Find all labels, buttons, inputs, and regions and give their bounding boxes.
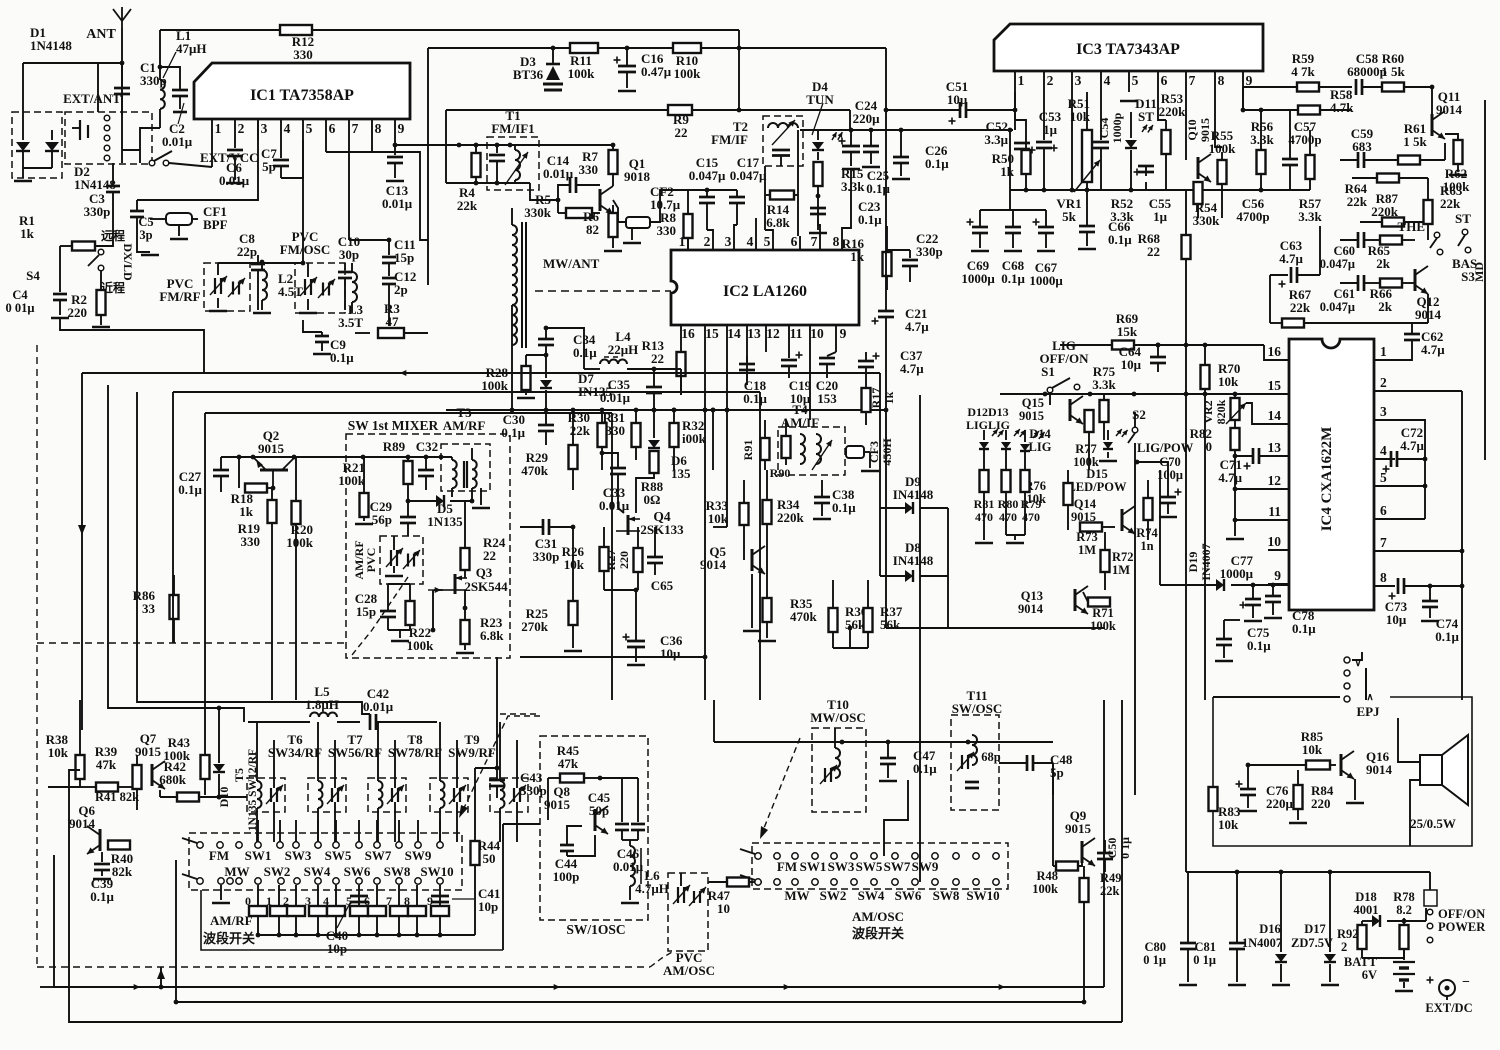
dashed linkage PVC AM/OSC <box>650 952 672 967</box>
svg-text:1: 1 <box>1018 73 1025 88</box>
wire top bus 2 <box>428 47 886 49</box>
capacitor C40 10p <box>350 895 368 898</box>
svg-text:0.1μ: 0.1μ <box>925 156 949 171</box>
svg-text:1k: 1k <box>20 226 35 241</box>
svg-text:100k: 100k <box>338 473 366 488</box>
svg-text:ST: ST <box>1138 109 1154 124</box>
svg-text:0.047μ: 0.047μ <box>1320 300 1355 314</box>
svg-text:R80: R80 <box>998 497 1019 511</box>
svg-text:100k: 100k <box>286 535 314 550</box>
svg-text:56p: 56p <box>372 512 392 527</box>
svg-text:4700p: 4700p <box>1288 132 1321 147</box>
svg-text:10: 10 <box>717 901 730 916</box>
svg-text:R72: R72 <box>1112 550 1134 564</box>
svg-text:SW3: SW3 <box>285 848 312 863</box>
svg-text:C81: C81 <box>1194 940 1216 954</box>
capacitor C13 0.01u <box>394 140 396 155</box>
svg-text:3: 3 <box>261 121 268 136</box>
svg-text:SW6: SW6 <box>895 888 922 903</box>
svg-text:SW8: SW8 <box>384 864 411 879</box>
wire pin9 to T1 <box>395 144 446 146</box>
svg-text:0.1μ: 0.1μ <box>1292 621 1316 636</box>
svg-text:1000p: 1000p <box>1110 112 1124 143</box>
svg-text:100k: 100k <box>568 66 596 81</box>
svg-text:22: 22 <box>1147 244 1160 259</box>
switch row FM SW1-SW9 <box>197 842 203 848</box>
svg-text:4.7μ: 4.7μ <box>1279 251 1303 266</box>
svg-text:3p: 3p <box>139 228 152 242</box>
svg-text:82: 82 <box>586 222 599 237</box>
svg-text:47k: 47k <box>558 756 579 771</box>
svg-text:0 01μ: 0 01μ <box>6 301 35 315</box>
svg-text:SW1: SW1 <box>800 859 827 874</box>
svg-text:C32: C32 <box>416 439 438 454</box>
svg-text:4.7μ: 4.7μ <box>900 361 924 376</box>
svg-text:13: 13 <box>1268 440 1282 455</box>
wire <box>372 152 428 240</box>
svg-text:EXT/ANT: EXT/ANT <box>63 91 121 106</box>
svg-text:BT36: BT36 <box>513 67 544 82</box>
svg-text:1.8μH: 1.8μH <box>305 697 339 712</box>
svg-text:8.2: 8.2 <box>1396 903 1412 917</box>
svg-text:220k: 220k <box>777 510 805 525</box>
svg-text:9015: 9015 <box>1019 409 1044 423</box>
svg-text:330p: 330p <box>84 204 111 219</box>
svg-text:9: 9 <box>840 326 847 341</box>
svg-text:0.1μ: 0.1μ <box>330 350 354 365</box>
svg-text:MW: MW <box>224 864 249 879</box>
svg-text:SW78/RF: SW78/RF <box>388 745 442 760</box>
wire CF2 out <box>650 190 688 222</box>
svg-text:SW10: SW10 <box>420 864 453 879</box>
svg-text:C65: C65 <box>651 578 674 593</box>
svg-text:2p: 2p <box>394 282 408 297</box>
svg-text:10k: 10k <box>708 511 729 526</box>
svg-text:100k: 100k <box>1032 882 1058 896</box>
svg-text:56k: 56k <box>880 617 901 632</box>
svg-text:OFF/ON: OFF/ON <box>1438 907 1485 921</box>
wire <box>503 823 540 825</box>
svg-text:3.5T: 3.5T <box>338 315 363 330</box>
svg-text:Q10: Q10 <box>1185 119 1199 140</box>
audio out box <box>1213 697 1472 846</box>
svg-text:R71: R71 <box>1092 606 1114 620</box>
svg-text:R48: R48 <box>1036 869 1058 883</box>
wire pin8 IC3 <box>1215 92 1222 147</box>
wire q5 ground <box>766 595 768 598</box>
svg-text:2SK544: 2SK544 <box>464 579 508 594</box>
capacitor C2 0.01u <box>160 67 180 89</box>
wire T4 pin11 <box>809 352 811 420</box>
antenna ANT <box>121 28 123 115</box>
svg-text:16: 16 <box>1268 344 1282 359</box>
wire pin5 pin6 <box>1395 485 1425 487</box>
svg-text:1n: 1n <box>1140 539 1153 553</box>
svg-text:2k: 2k <box>1378 299 1393 314</box>
IC4 CXA1622M <box>1289 339 1374 610</box>
svg-text:14: 14 <box>727 326 741 341</box>
svg-text:9018: 9018 <box>624 169 651 184</box>
svg-text:22: 22 <box>483 548 496 563</box>
svg-text:330p: 330p <box>533 549 560 564</box>
svg-text:0.047μ: 0.047μ <box>730 168 767 183</box>
svg-text:MW/OSC: MW/OSC <box>810 710 866 725</box>
wire Q1 collector <box>611 143 616 148</box>
svg-text:8: 8 <box>833 234 840 249</box>
right edge vertical <box>1484 100 1486 460</box>
svg-text:22: 22 <box>651 351 664 366</box>
svg-text:10k: 10k <box>48 745 69 760</box>
svg-text:SW56/RF: SW56/RF <box>328 745 382 760</box>
IC3 TA7343AP <box>994 24 1263 71</box>
svg-text:MD: MD <box>1472 262 1486 282</box>
svg-text:330p: 330p <box>916 244 943 259</box>
svg-text:220: 220 <box>617 551 631 569</box>
bus bottom <box>258 934 475 936</box>
svg-text:15p: 15p <box>394 250 414 265</box>
svg-text:THE: THE <box>1398 219 1425 234</box>
op-amp IC1 TA7358AP <box>194 63 410 119</box>
svg-text:∧: ∧ <box>1366 692 1373 703</box>
svg-text:3: 3 <box>1075 73 1082 88</box>
wire <box>60 62 122 64</box>
svg-text:9014: 9014 <box>700 557 727 572</box>
svg-text:100k: 100k <box>1090 619 1116 633</box>
svg-text:330k: 330k <box>524 205 552 220</box>
left vertical wires <box>81 373 83 730</box>
svg-text:8: 8 <box>1380 570 1387 585</box>
wire <box>947 627 949 629</box>
wire bus y=145 <box>446 144 530 146</box>
dashed linkage T10 <box>762 738 800 833</box>
svg-text:10μ: 10μ <box>660 646 681 661</box>
svg-text:LIG: LIG <box>1029 440 1052 454</box>
svg-text:1M: 1M <box>1078 543 1096 557</box>
svg-text:波段开关: 波段开关 <box>203 931 255 946</box>
svg-text:1000μ: 1000μ <box>1220 566 1254 581</box>
svg-text:5: 5 <box>306 121 313 136</box>
svg-text:4.7k: 4.7k <box>1330 100 1354 115</box>
svg-text:330: 330 <box>606 423 626 438</box>
band switch AM/RF block <box>189 833 462 890</box>
svg-text:330p: 330p <box>520 783 547 798</box>
svg-text:15p: 15p <box>356 604 376 619</box>
svg-text:∨: ∨ <box>1354 658 1361 669</box>
svg-text:1N135 SW12/RF: 1N135 SW12/RF <box>247 749 259 831</box>
wire vertical 612 <box>611 413 613 700</box>
svg-text:1: 1 <box>215 121 222 136</box>
svg-text:i00k: i00k <box>682 431 707 446</box>
svg-text:0.01μ: 0.01μ <box>599 498 630 513</box>
wire pin7 down <box>348 140 350 240</box>
svg-text:SW10: SW10 <box>966 888 999 903</box>
svg-text:0.1μ: 0.1μ <box>743 391 767 406</box>
svg-text:R92: R92 <box>1337 927 1359 941</box>
svg-text:220: 220 <box>68 305 88 320</box>
svg-text:波段开关: 波段开关 <box>852 926 904 941</box>
svg-text:MW/ANT: MW/ANT <box>543 256 600 271</box>
svg-text:BPF: BPF <box>203 217 228 232</box>
svg-text:9014: 9014 <box>1366 762 1393 777</box>
svg-text:6: 6 <box>1380 503 1387 518</box>
wire pin14 down <box>726 368 728 527</box>
svg-text:4.7μ: 4.7μ <box>1218 470 1242 485</box>
svg-text:SW3: SW3 <box>828 859 855 874</box>
wire T2 pins <box>764 195 766 230</box>
svg-text:330k: 330k <box>1193 213 1221 228</box>
svg-text:0.1μ: 0.1μ <box>832 500 856 515</box>
svg-text:ANT: ANT <box>86 27 116 42</box>
svg-text:AM/OSC: AM/OSC <box>852 909 904 924</box>
svg-text:1k: 1k <box>882 391 896 404</box>
svg-text:SW/1OSC: SW/1OSC <box>566 922 625 937</box>
svg-text:0: 0 <box>1206 439 1213 454</box>
svg-text:2: 2 <box>704 234 711 249</box>
wire vertical 760 <box>759 392 761 700</box>
svg-text:10p: 10p <box>327 941 347 956</box>
bottom bus 2 <box>176 860 1084 1002</box>
svg-text:Q3: Q3 <box>476 565 493 580</box>
svg-text:0.1μ: 0.1μ <box>858 212 882 227</box>
svg-text:0.1μ: 0.1μ <box>501 425 525 440</box>
vertical x=920 <box>919 395 921 882</box>
svg-text:270k: 270k <box>521 619 549 634</box>
svg-text:9: 9 <box>1246 73 1253 88</box>
svg-text:3.3k: 3.3k <box>1092 377 1116 392</box>
svg-text:1N4007: 1N4007 <box>1242 936 1282 950</box>
T1 cap <box>496 145 498 153</box>
trimmer caps 0-9 <box>257 885 259 906</box>
svg-text:10μ: 10μ <box>1386 612 1407 627</box>
svg-text:0.1μ: 0.1μ <box>1435 629 1459 644</box>
wire mixer bottom <box>520 656 705 658</box>
svg-text:0.1μ: 0.1μ <box>1108 232 1132 247</box>
svg-text:AM/RF: AM/RF <box>210 913 253 928</box>
bottom bus 3 <box>69 780 1122 1022</box>
svg-text:2: 2 <box>238 121 245 136</box>
svg-text:12: 12 <box>1268 473 1282 488</box>
svg-text:R90: R90 <box>770 466 791 480</box>
svg-text:14: 14 <box>1268 408 1282 423</box>
svg-text:SW7: SW7 <box>884 859 911 874</box>
dashed bottom <box>37 966 650 968</box>
svg-text:IN4007: IN4007 <box>1199 543 1213 580</box>
svg-text:2SK133: 2SK133 <box>640 522 684 537</box>
svg-text:2: 2 <box>283 894 289 908</box>
svg-text:4.7μ: 4.7μ <box>905 319 929 334</box>
wire LIG rail <box>1000 393 1186 395</box>
wire vertical 713 <box>712 410 714 470</box>
svg-text:680k: 680k <box>159 772 187 787</box>
verticals from mixer <box>295 560 297 700</box>
svg-text:3.3μ: 3.3μ <box>984 132 1008 147</box>
svg-text:D18: D18 <box>1355 890 1377 904</box>
svg-text:AM/OSC: AM/OSC <box>663 963 715 978</box>
svg-text:0Ω: 0Ω <box>644 492 661 507</box>
svg-text:POWER: POWER <box>1438 920 1486 934</box>
svg-text:220k: 220k <box>1159 104 1187 119</box>
svg-text:82k: 82k <box>112 864 133 879</box>
wire pin1 <box>211 140 213 167</box>
svg-text:AM/RF: AM/RF <box>443 418 486 433</box>
svg-text:SW34/RF: SW34/RF <box>268 745 322 760</box>
svg-text:2k: 2k <box>1376 256 1391 271</box>
svg-text:6V: 6V <box>1362 968 1377 982</box>
svg-text:470: 470 <box>999 510 1017 524</box>
svg-text:220μ: 220μ <box>853 111 881 126</box>
svg-text:3.3k: 3.3k <box>1110 209 1134 224</box>
svg-text:6.8k: 6.8k <box>766 215 790 230</box>
dashed linkage mixer to SW/1OSC <box>352 577 408 655</box>
svg-text:22k: 22k <box>1290 300 1311 315</box>
wires sw1 up <box>257 820 259 842</box>
svg-text:15: 15 <box>1268 378 1282 393</box>
svg-text:ST: ST <box>1455 211 1471 226</box>
svg-text:4: 4 <box>323 894 329 908</box>
svg-text:4.7μ: 4.7μ <box>1400 438 1424 453</box>
svg-text:450H: 450H <box>880 438 894 466</box>
svg-text:22k: 22k <box>1440 196 1461 211</box>
svg-text:EPJ: EPJ <box>1356 704 1380 719</box>
svg-text:0.01μ: 0.01μ <box>613 859 644 874</box>
svg-text:4.7μH: 4.7μH <box>635 881 669 896</box>
svg-text:22k: 22k <box>570 423 591 438</box>
svg-text:SW5: SW5 <box>325 848 352 863</box>
svg-text:IC2 LA1260: IC2 LA1260 <box>723 283 807 300</box>
svg-text:15k: 15k <box>1117 324 1138 339</box>
wire vertical x=886 <box>885 48 887 311</box>
svg-text:EXT/DC: EXT/DC <box>1425 1001 1472 1015</box>
arrow up line <box>160 967 162 988</box>
svg-text:8: 8 <box>375 121 382 136</box>
svg-text:100k: 100k <box>674 66 702 81</box>
vertical right of IC2 <box>886 627 1104 629</box>
svg-text:1: 1 <box>266 894 272 908</box>
wire pin7 <box>1395 550 1462 552</box>
svg-text:−: − <box>1462 975 1470 990</box>
svg-text:2: 2 <box>1047 73 1054 88</box>
vertical x=1160 to D19 <box>1159 470 1161 585</box>
band switch AM/OSC block <box>752 843 1008 889</box>
svg-text:SW8: SW8 <box>933 888 960 903</box>
svg-text:4 7k: 4 7k <box>1291 64 1315 79</box>
svg-text:SW4: SW4 <box>858 888 885 903</box>
svg-text:Q15: Q15 <box>1022 396 1044 410</box>
svg-text:1k: 1k <box>239 504 254 519</box>
svg-text:10k: 10k <box>1302 742 1323 757</box>
wire osc bus <box>714 741 1053 743</box>
svg-text:100k: 100k <box>481 378 509 393</box>
svg-text:SW9: SW9 <box>912 859 939 874</box>
svg-text:FM: FM <box>777 859 797 874</box>
svg-text:10: 10 <box>810 326 824 341</box>
svg-text:1N135: 1N135 <box>427 514 463 529</box>
svg-text:10: 10 <box>1268 534 1282 549</box>
svg-text:R41 82k: R41 82k <box>95 790 139 804</box>
svg-text:远程: 远程 <box>101 228 125 243</box>
svg-text:0 1μ: 0 1μ <box>1143 953 1166 967</box>
svg-text:9014: 9014 <box>1018 602 1044 616</box>
svg-text:22p: 22p <box>237 244 257 259</box>
svg-text:10μ: 10μ <box>1121 357 1142 372</box>
svg-text:SW7: SW7 <box>365 848 392 863</box>
svg-text:R89: R89 <box>383 439 406 454</box>
svg-text:BATT: BATT <box>1344 955 1378 969</box>
svg-text:4: 4 <box>1380 443 1387 458</box>
svg-text:R78: R78 <box>1393 890 1415 904</box>
svg-text:5k: 5k <box>1062 209 1077 224</box>
svg-text:8: 8 <box>404 894 410 908</box>
long horiz wires left <box>82 372 880 374</box>
svg-text:330: 330 <box>579 162 599 177</box>
svg-text:IN4148: IN4148 <box>893 487 934 502</box>
svg-text:C60: C60 <box>1333 244 1355 258</box>
svg-text:3.3k: 3.3k <box>1298 209 1322 224</box>
svg-text:10k: 10k <box>564 557 585 572</box>
svg-text:0.1μ: 0.1μ <box>573 345 597 360</box>
svg-text:0.1μ: 0.1μ <box>90 889 114 904</box>
PVC AM/OSC trimmer <box>668 873 708 951</box>
svg-text:1N4148: 1N4148 <box>30 38 72 53</box>
svg-text:C61: C61 <box>1333 287 1355 301</box>
svg-text:3: 3 <box>1380 404 1387 419</box>
svg-text:DX/LD: DX/LD <box>121 243 135 281</box>
svg-text:SW2: SW2 <box>264 864 291 879</box>
svg-text:D16: D16 <box>1259 922 1281 936</box>
svg-text:7: 7 <box>811 234 818 249</box>
resistor R13b vert <box>680 369 682 395</box>
svg-text:1N4148: 1N4148 <box>74 177 116 192</box>
svg-text:4: 4 <box>1104 73 1111 88</box>
svg-text:R77: R77 <box>1075 442 1097 456</box>
svg-text:0.01μ: 0.01μ <box>363 699 394 714</box>
svg-text:0.47μ: 0.47μ <box>641 64 672 79</box>
svg-text:1μ: 1μ <box>1043 122 1058 137</box>
svg-text:SW6: SW6 <box>344 864 371 879</box>
svg-text:12: 12 <box>766 326 780 341</box>
svg-text:IC3 TA7343AP: IC3 TA7343AP <box>1076 41 1180 58</box>
svg-text:0 1μ: 0 1μ <box>1193 953 1216 967</box>
svg-text:0 1μ: 0 1μ <box>1118 837 1132 859</box>
svg-text:R27: R27 <box>604 550 618 571</box>
svg-text:2: 2 <box>1380 375 1387 390</box>
svg-text:0.01μ: 0.01μ <box>219 173 250 188</box>
dashed line mid <box>37 642 347 644</box>
wire pin3 <box>1395 420 1425 459</box>
svg-text:ZD7.5V: ZD7.5V <box>1291 936 1333 950</box>
svg-text:9015: 9015 <box>258 441 285 456</box>
svg-text:0.1μ: 0.1μ <box>1001 271 1025 286</box>
diode D2 1N4148 <box>45 142 59 151</box>
svg-text:D17: D17 <box>1304 922 1326 936</box>
wire IC3 pin rail <box>1010 189 1310 191</box>
svg-text:C54: C54 <box>1097 118 1111 139</box>
svg-text:0.01μ: 0.01μ <box>382 196 413 211</box>
wire pin8 down <box>371 140 373 152</box>
svg-text:1μ: 1μ <box>1153 209 1168 224</box>
svg-text:1000μ: 1000μ <box>1029 273 1063 288</box>
svg-text:IC1 TA7358AP: IC1 TA7358AP <box>250 87 354 104</box>
wire osc vertical <box>713 700 715 742</box>
svg-text:S4: S4 <box>26 268 40 283</box>
wire <box>980 209 1046 211</box>
wire vertical 880 <box>879 373 881 497</box>
IC2 LA1260 <box>671 250 859 325</box>
svg-text:S1: S1 <box>1041 364 1055 379</box>
svg-text:1000μ: 1000μ <box>961 271 995 286</box>
svg-text:33: 33 <box>142 601 156 616</box>
svg-text:LIG/POW: LIG/POW <box>1137 441 1194 455</box>
